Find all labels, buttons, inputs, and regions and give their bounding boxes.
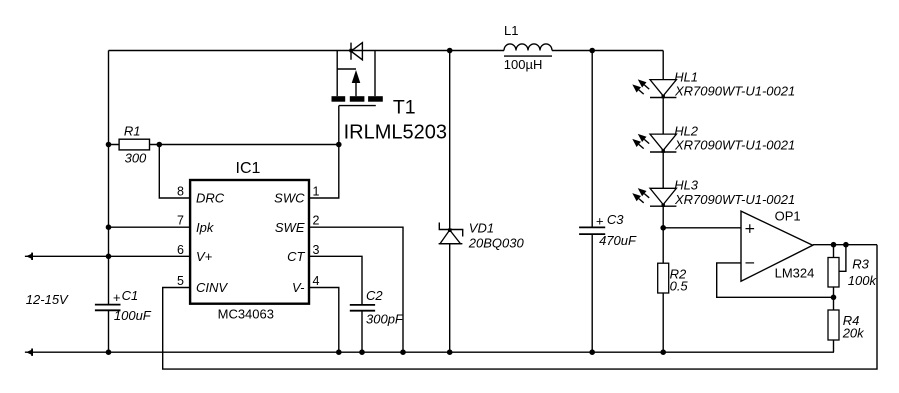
LED HL3	[632, 178, 795, 207]
junction Ipk / supply rail	[106, 224, 112, 230]
svg-text:R1: R1	[124, 123, 141, 138]
svg-text:5: 5	[177, 274, 184, 288]
junction VD1 cathode / switch node	[447, 48, 453, 54]
svg-text:7: 7	[177, 214, 184, 228]
op-amp OP1 LM324	[741, 209, 814, 282]
svg-text:2: 2	[313, 214, 320, 228]
junction VD1 anode / bottom rail	[447, 349, 453, 355]
svg-text:20BQ030: 20BQ030	[468, 235, 525, 250]
svg-text:V-: V-	[292, 280, 305, 295]
svg-text:20k: 20k	[842, 326, 865, 341]
junction V- / bottom rail	[336, 349, 342, 355]
wire left supply vertical	[108, 51, 110, 353]
wire Ipk pin7	[109, 226, 191, 228]
resistor R2	[658, 263, 689, 352]
svg-text:SWC: SWC	[274, 191, 305, 206]
svg-text:300pF: 300pF	[366, 312, 404, 327]
capacitor C3	[579, 51, 637, 353]
junction C3 / bottom rail	[589, 349, 595, 355]
resistor R1	[109, 123, 339, 165]
svg-text:CINV: CINV	[196, 280, 228, 295]
transistor T1 IRLML5203	[332, 43, 448, 144]
wire gate vertical / SWC pin1	[309, 106, 339, 198]
svg-text:100µH: 100µH	[504, 57, 543, 72]
svg-text:12-15V: 12-15V	[26, 292, 69, 307]
LED HL2	[632, 124, 795, 153]
svg-text:0.5: 0.5	[670, 278, 689, 293]
svg-text:XR7090WT-U1-0021: XR7090WT-U1-0021	[674, 192, 795, 207]
inductor L1	[504, 23, 552, 72]
junction SWE / bottom rail	[400, 349, 406, 355]
LED string vertical wire	[662, 51, 664, 264]
svg-text:4: 4	[313, 274, 320, 288]
wire top rail	[109, 50, 664, 52]
svg-text:C3: C3	[607, 212, 624, 227]
diode VD1 20BQ030 (schottky)	[439, 51, 525, 353]
wire CT pin3 to C2	[309, 256, 362, 305]
svg-text:OP1: OP1	[775, 209, 801, 224]
wire CINV pin5 feedback	[163, 245, 877, 369]
svg-text:470uF: 470uF	[599, 233, 637, 248]
svg-text:300: 300	[125, 150, 147, 165]
junction C3 / output node	[589, 48, 595, 54]
svg-text:C1: C1	[122, 288, 139, 303]
svg-text:DRC: DRC	[196, 191, 225, 206]
capacitor C1	[95, 288, 152, 323]
svg-text:MC34063: MC34063	[218, 307, 274, 322]
wire DRC pin8	[159, 145, 190, 199]
junction op-amp output / R3	[831, 242, 837, 248]
junction C1 / bottom rail	[106, 349, 112, 355]
substrate arrow	[352, 70, 361, 83]
wire V- pin4	[309, 288, 339, 353]
svg-text:V+: V+	[196, 249, 213, 264]
source vertical	[336, 51, 338, 97]
wire output to R3 tap	[839, 245, 846, 272]
svg-text:IRLML5203: IRLML5203	[344, 121, 447, 143]
junction R1 right / DRC branch	[157, 142, 163, 148]
junction R3 / R4 / feedback	[831, 295, 837, 301]
svg-text:+: +	[113, 290, 121, 305]
IC U1 MC34063 (IC1)	[177, 160, 319, 322]
drain vertical	[374, 51, 376, 97]
junction R2 / bottom rail	[660, 349, 666, 355]
LED HL1	[632, 69, 795, 98]
svg-text:C2: C2	[366, 288, 383, 303]
junction R1 left / supply rail	[106, 142, 112, 148]
svg-text:XR7090WT-U1-0021: XR7090WT-U1-0021	[674, 84, 795, 99]
svg-text:T1: T1	[393, 97, 416, 119]
svg-text:IC1: IC1	[236, 160, 261, 177]
svg-text:HL3: HL3	[674, 178, 699, 193]
svg-text:R3: R3	[852, 257, 869, 272]
wire op-amp + input	[663, 227, 741, 229]
svg-text:CT: CT	[287, 249, 305, 264]
svg-text:LM324: LM324	[775, 266, 815, 281]
junction V+ / supply rail	[106, 253, 112, 259]
svg-text:XR7090WT-U1-0021: XR7090WT-U1-0021	[674, 138, 795, 153]
gate electrode	[339, 105, 376, 107]
svg-text:Ipk: Ipk	[196, 220, 215, 235]
body diode	[351, 43, 362, 60]
channel bars	[332, 96, 346, 102]
svg-text:3: 3	[313, 243, 320, 257]
junction C2 / bottom rail	[359, 349, 365, 355]
svg-text:100k: 100k	[848, 273, 878, 288]
svg-text:HL1: HL1	[674, 69, 698, 84]
resistor R4	[828, 310, 865, 352]
junction op-amp output / R3 tap	[843, 242, 849, 248]
body connection	[337, 69, 356, 96]
svg-text:SWE: SWE	[275, 220, 305, 235]
wire bottom rail	[25, 351, 834, 353]
resistor R3	[828, 245, 877, 310]
IC1 body	[190, 180, 309, 304]
svg-text:100uF: 100uF	[114, 308, 152, 323]
junction gate drive / SWC branch	[336, 142, 342, 148]
junction LED cathode / op-amp + input	[660, 225, 666, 231]
svg-text:HL2: HL2	[674, 124, 699, 139]
svg-text:6: 6	[177, 243, 184, 257]
svg-text:1: 1	[313, 185, 320, 199]
wire op-amp - input feedback	[717, 263, 834, 297]
svg-text:+: +	[596, 213, 604, 228]
svg-text:8: 8	[177, 185, 184, 199]
capacitor C2	[350, 288, 404, 352]
svg-text:VD1: VD1	[469, 221, 494, 236]
terminal arrow bottom-left (GND input)	[26, 349, 33, 355]
terminal arrow top-left (V+ input)	[25, 253, 190, 260]
wire op-amp output	[813, 244, 877, 246]
wire SWE pin2	[309, 227, 403, 352]
svg-text:L1: L1	[504, 23, 518, 38]
